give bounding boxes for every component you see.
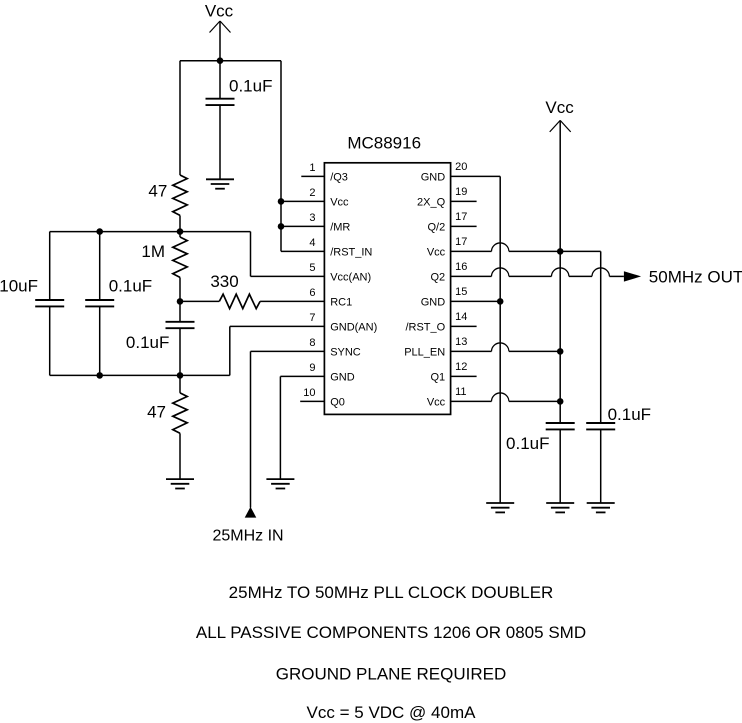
svg-text:11: 11 (455, 386, 466, 398)
svg-text:10: 10 (303, 387, 315, 399)
svg-text:7: 7 (309, 312, 315, 324)
svg-text:Vcc(AN): Vcc(AN) (330, 272, 371, 284)
svg-text:47: 47 (148, 182, 167, 201)
svg-text:20: 20 (455, 161, 467, 173)
svg-text:10uF: 10uF (0, 277, 38, 296)
svg-text:0.1uF: 0.1uF (229, 77, 272, 96)
svg-text:/MR: /MR (330, 222, 350, 234)
svg-text:2: 2 (309, 187, 315, 199)
svg-text:12: 12 (455, 361, 467, 373)
svg-text:GND: GND (421, 297, 446, 309)
svg-text:Vcc: Vcc (427, 247, 446, 259)
svg-text:6: 6 (309, 287, 315, 299)
svg-text:0.1uF: 0.1uF (126, 333, 169, 352)
svg-text:GROUND PLANE REQUIRED: GROUND PLANE REQUIRED (276, 665, 506, 684)
svg-text:Vcc: Vcc (427, 397, 446, 409)
svg-text:16: 16 (455, 261, 467, 273)
svg-text:1: 1 (309, 162, 315, 174)
svg-text:50MHz OUT: 50MHz OUT (649, 268, 742, 287)
svg-text:14: 14 (455, 311, 467, 323)
svg-text:330: 330 (210, 272, 238, 291)
svg-text:MC88916: MC88916 (347, 134, 421, 153)
svg-text:17: 17 (455, 236, 467, 248)
svg-text:PLL_EN: PLL_EN (404, 347, 445, 359)
svg-text:47: 47 (147, 403, 166, 422)
svg-text:25MHz TO 50MHz PLL CLOCK DOUBL: 25MHz TO 50MHz PLL CLOCK DOUBLER (229, 583, 554, 602)
svg-text:1M: 1M (141, 242, 165, 261)
svg-text:19: 19 (455, 186, 467, 198)
svg-text:9: 9 (309, 362, 315, 374)
svg-text:2X_Q: 2X_Q (417, 197, 446, 209)
svg-text:4: 4 (309, 237, 315, 249)
svg-text:0.1uF: 0.1uF (109, 277, 152, 296)
svg-text:13: 13 (455, 336, 467, 348)
svg-text:Q/2: Q/2 (427, 222, 445, 234)
svg-text:0.1uF: 0.1uF (608, 405, 651, 424)
svg-text:RC1: RC1 (330, 297, 352, 309)
svg-text:25MHz IN: 25MHz IN (212, 528, 283, 545)
svg-text:ALL PASSIVE COMPONENTS 1206 OR: ALL PASSIVE COMPONENTS 1206 OR 0805 SMD (196, 623, 586, 642)
svg-text:Vcc = 5 VDC @ 40mA: Vcc = 5 VDC @ 40mA (307, 703, 477, 722)
svg-text:0.1uF: 0.1uF (506, 434, 549, 453)
svg-text:5: 5 (309, 262, 315, 274)
svg-text:SYNC: SYNC (330, 347, 361, 359)
svg-text:15: 15 (455, 286, 467, 298)
svg-text:/RST_O: /RST_O (405, 322, 445, 334)
svg-text:GND: GND (330, 372, 355, 384)
svg-text:/Q3: /Q3 (330, 172, 348, 184)
svg-text:Q0: Q0 (330, 397, 345, 409)
svg-text:Vcc: Vcc (545, 98, 574, 117)
svg-text:8: 8 (309, 337, 315, 349)
svg-text:3: 3 (309, 212, 315, 224)
svg-text:Vcc: Vcc (205, 2, 234, 21)
svg-text:GND: GND (421, 172, 446, 184)
svg-text:17: 17 (455, 211, 467, 223)
svg-text:Vcc: Vcc (330, 197, 349, 209)
svg-text:Q1: Q1 (431, 372, 446, 384)
svg-text:GND(AN): GND(AN) (330, 322, 377, 334)
svg-text:Q2: Q2 (431, 272, 446, 284)
svg-text:/RST_IN: /RST_IN (330, 247, 372, 259)
